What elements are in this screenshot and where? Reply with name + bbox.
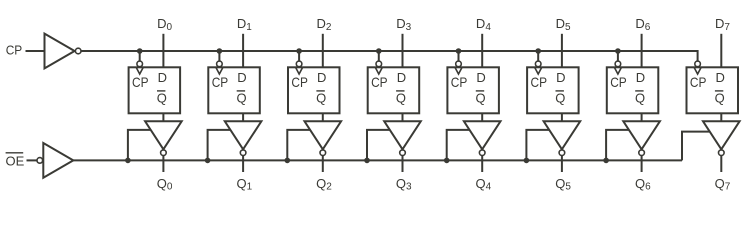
svg-text:Q: Q <box>316 91 326 106</box>
svg-text:D: D <box>237 70 246 85</box>
svg-text:CP: CP <box>610 74 627 90</box>
svg-text:Q: Q <box>555 91 565 106</box>
svg-text:Q: Q <box>635 91 645 106</box>
svg-text:CP: CP <box>690 74 707 90</box>
svg-text:CP: CP <box>6 43 23 58</box>
svg-text:CP: CP <box>291 74 308 90</box>
svg-text:Q: Q <box>715 91 725 106</box>
svg-text:D: D <box>556 70 565 85</box>
svg-text:D: D <box>397 70 406 85</box>
svg-text:D: D <box>716 70 725 85</box>
svg-text:CP: CP <box>132 74 149 90</box>
svg-text:D: D <box>317 70 326 85</box>
svg-text:Q: Q <box>157 91 167 106</box>
svg-text:Q: Q <box>396 91 406 106</box>
svg-text:Q: Q <box>476 91 486 106</box>
svg-text:D: D <box>476 70 485 85</box>
svg-text:Q: Q <box>236 91 246 106</box>
svg-text:OE: OE <box>6 153 25 168</box>
svg-text:CP: CP <box>451 74 468 90</box>
svg-text:CP: CP <box>531 74 548 90</box>
svg-text:D: D <box>158 70 167 85</box>
svg-text:D: D <box>636 70 645 85</box>
svg-text:CP: CP <box>371 74 388 90</box>
svg-text:CP: CP <box>212 74 229 90</box>
